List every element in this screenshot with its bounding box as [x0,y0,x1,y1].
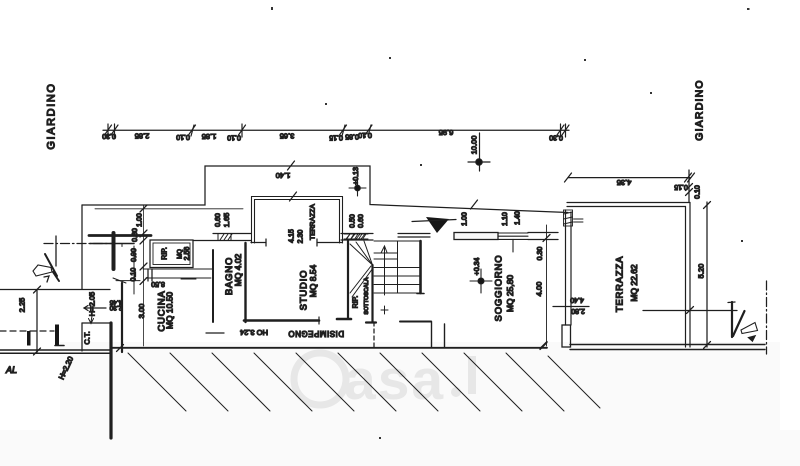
bottom wall left (double) [0,349,110,351]
svg-text:5.20: 5.20 [697,264,706,279]
svg-text:2.85: 2.85 [135,132,150,141]
svg-text:0.30: 0.30 [102,132,116,139]
svg-text:0.15: 0.15 [329,134,343,141]
svg-text:2.30: 2.30 [298,230,305,244]
watermark casa.it [294,348,476,412]
svg-text:DISIMPEGNO: DISIMPEGNO [288,329,344,338]
window block kitchenwing [218,234,232,241]
svg-text:SOGGIORNO: SOGGIORNO [494,255,505,322]
svg-text:+0.34: +0.34 [474,258,481,276]
svg-text:2.30: 2.30 [109,304,122,311]
svg-text:0.10: 0.10 [227,134,241,141]
soggiorno top wall seg2 [398,233,430,235]
svg-text:0.85: 0.85 [345,133,359,140]
bottom wall under terrace (double) [570,344,765,346]
studio west wall [244,243,246,322]
studio south wall [244,319,319,322]
east wall pillar bottom [562,325,571,347]
dim 0.30 / 4.00 soggiorno [546,225,548,346]
east wall of house [565,210,567,325]
svg-text:1.10: 1.10 [502,212,509,226]
kitchen door jambs [147,269,149,281]
svg-text:MQ 4.02: MQ 4.02 [233,253,243,286]
svg-text:C.T.: C.T. [83,331,92,344]
bagno fixture [181,278,196,280]
tick 1.00 on outline at soggiorno [471,200,478,209]
disimpegno walls [400,321,431,323]
C.T. room [82,322,110,324]
scan wash [60,342,780,430]
svg-text:4.00: 4.00 [535,282,544,297]
terrace right wall [685,207,687,348]
east wall window [564,210,584,226]
svg-text:4.15: 4.15 [289,229,296,243]
top wall of kitchen wing [89,234,151,237]
svg-text:RIP.: RIP. [353,296,360,309]
svg-text:0.10: 0.10 [358,131,372,138]
dashed door line [373,322,375,350]
thick pier wall [109,323,112,438]
svg-text:6.95: 6.95 [439,128,454,137]
entrance arrow right [728,301,735,304]
pillar 1 [27,331,31,346]
guide with arrow [384,247,386,295]
svg-text:8.50: 8.50 [151,280,165,287]
north arrow triangle [426,217,449,233]
svg-text:HO 3.24: HO 3.24 [240,328,268,337]
soggiorno top wall seg3 [454,233,498,240]
kitchen west wall upper [112,233,116,269]
upper flight [374,240,420,242]
svg-text:+0.13: +0.13 [353,167,360,185]
svg-text:1.85: 1.85 [202,132,217,141]
svg-text:0.50: 0.50 [350,214,357,228]
svg-text:0.10: 0.10 [176,133,190,140]
svg-text:AL: AL [5,365,17,375]
wall with window between rip and terrazzina [193,240,251,242]
svg-text:1.40: 1.40 [515,211,522,225]
label HO 3.24 [206,332,224,334]
kitchen door sill [116,280,140,282]
svg-text:2.25: 2.25 [18,298,27,313]
stair window hatch [344,234,368,239]
entrance flag right [741,323,758,334]
left outer wall [81,205,83,289]
svg-text:H=2.05: H=2.05 [88,292,97,316]
kitchen door swing [113,278,126,283]
south wall of left wing [0,289,110,291]
door dim 4.40/2.80 [553,306,589,308]
svg-text:MQ 25,80: MQ 25,80 [505,275,515,313]
entrance arrow left [45,254,59,281]
window soggiorno top [498,233,528,252]
svg-text:4.40: 4.40 [570,296,584,303]
svg-text:GIARDINO: GIARDINO [46,82,58,149]
svg-text:0.30: 0.30 [537,247,544,261]
hatched strip [128,353,600,411]
terrace top wall [567,202,690,204]
entrance flag left [33,265,52,276]
property dash-dot line [766,281,768,354]
right dimension line 4.35 [568,177,690,179]
soggiorno west wall [419,241,422,293]
terrazzina bottom edge with door gap [251,242,266,244]
svg-text:2.80: 2.80 [571,307,585,314]
scan specks [271,7,750,439]
svg-text:MQ 10.50: MQ 10.50 [165,292,175,330]
svg-text:SOTTOSCALA: SOTTOSCALA [364,277,370,314]
svg-text:0.10: 0.10 [695,185,702,199]
svg-text:MQ: MQ [178,249,184,259]
small terrazza walls [252,197,343,244]
right dim guide + 0.15/0.10 [688,170,690,202]
dim 2.25 [36,290,38,352]
wall bagno west [212,250,214,322]
outline roof/overhang [82,166,568,213]
soggiorno top wall seg4 [528,232,558,234]
svg-text:TERRAZZA: TERRAZZA [310,204,317,240]
tick 1.40 on outline [288,161,295,170]
svg-text:10.00: 10.00 [470,136,479,155]
svg-text:0.15: 0.15 [674,183,688,190]
svg-text:0.10: 0.10 [131,268,138,282]
kitchen door jamb line [133,246,135,294]
stairs [337,240,420,323]
dashed fence line [0,330,54,332]
dim 5.20 [706,202,708,347]
svg-text:0.60: 0.60 [215,213,222,227]
svg-text:GIARDINO: GIARDINO [694,79,706,141]
terrace entry line [643,310,737,312]
kitchen lintel [90,243,134,245]
top dim ticks [105,124,570,137]
svg-text:3.00: 3.00 [137,304,146,319]
soggiorno top wall seg1 + window hatch [341,233,373,235]
bottom wall main [111,347,547,349]
rip closet [150,240,193,268]
winder diagonals [350,266,371,293]
svg-text:RIP.: RIP. [162,247,169,260]
svg-text:3.65: 3.65 [280,132,295,141]
svg-text:1.65: 1.65 [222,213,231,228]
svg-text:1.00: 1.00 [462,212,469,226]
dim column x=143 [143,205,145,346]
svg-text:MQ 8.54: MQ 8.54 [308,264,318,297]
svg-text:TERRAZZA: TERRAZZA [615,256,626,313]
svg-text:0.30: 0.30 [549,134,563,141]
svg-text:4.35: 4.35 [617,178,632,187]
axis dash-dot entrance [44,243,112,245]
svg-text:1.00: 1.00 [137,213,144,227]
svg-text:MQ 22.62: MQ 22.62 [629,264,639,302]
svg-text:0.60: 0.60 [358,214,365,228]
svg-text:0.90: 0.90 [131,248,138,262]
pillar 2 [55,325,59,346]
top dimension line [103,129,569,131]
kitchen west wall lower [121,283,123,352]
svg-text:2.56: 2.56 [184,247,191,261]
svg-text:1.40: 1.40 [276,171,291,180]
overhang inner line [95,208,243,210]
fan treads [350,244,373,265]
